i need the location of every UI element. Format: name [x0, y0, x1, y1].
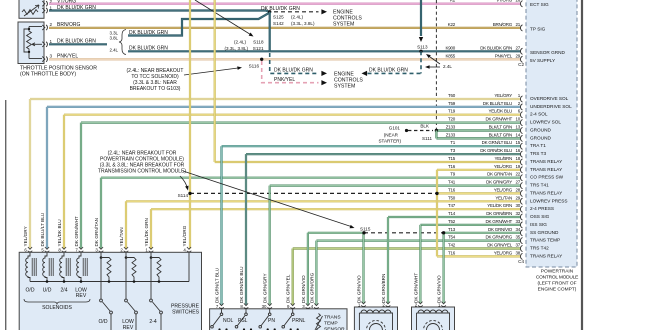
svg-text:YEL/DK BLU: YEL/DK BLU — [488, 109, 512, 114]
svg-text:DK GRN/ORG: DK GRN/ORG — [309, 272, 314, 303]
svg-text:(ON THROTTLE BODY): (ON THROTTLE BODY) — [20, 72, 76, 78]
wire DK GRN/TAN vertical to pin 3 — [100, 178, 102, 249]
svg-text:SOLENOIDS: SOLENOIDS — [42, 305, 72, 311]
svg-text:22: 22 — [515, 172, 520, 177]
svg-text:VT/ORG: VT/ORG — [496, 0, 513, 3]
svg-text:T13: T13 — [448, 227, 456, 232]
svg-text:13: 13 — [515, 125, 520, 130]
wire DK GRN/VIO vertical to input speed sensor pin 1 — [362, 233, 364, 303]
svg-text:T9: T9 — [450, 172, 455, 177]
junction YEL/ORG breakout — [435, 192, 438, 195]
pressure switch 2-4 — [150, 253, 152, 299]
arrow left from 2.4L dashed — [362, 71, 368, 76]
svg-text:T54: T54 — [448, 235, 456, 240]
annotation arrowhead 2.4L a — [425, 53, 431, 59]
svg-text:14: 14 — [515, 132, 520, 137]
svg-text:TP SIG: TP SIG — [530, 26, 546, 31]
svg-text:(LEFT FRONT OF: (LEFT FRONT OF — [538, 281, 577, 287]
dashed wire PNK/YEL to engine controls — [262, 61, 319, 83]
annotation arrowhead 2.4L b — [425, 65, 430, 69]
svg-text:DK BLU/DK GRN: DK BLU/DK GRN — [274, 67, 313, 73]
svg-text:DK GRN/WHT: DK GRN/WHT — [486, 117, 513, 122]
TRS switch PSL — [245, 309, 247, 313]
wire YEL/ORG vertical breakout — [436, 170, 438, 257]
svg-text:LOWREV SOL: LOWREV SOL — [530, 120, 561, 125]
solenoid / pressure switch box — [19, 252, 201, 332]
svg-text:TRS T41: TRS T41 — [530, 183, 549, 188]
svg-text:TRS T3: TRS T3 — [530, 151, 546, 156]
svg-text:2.4L: 2.4L — [109, 47, 118, 52]
TRS pin 3 connector — [306, 303, 310, 305]
ECT thermistor — [22, 10, 38, 15]
svg-text:DK GRN/GRY: DK GRN/GRY — [263, 273, 268, 303]
wire T16 YEL/ORG PCM pin 28 TRANS RELAY — [190, 192, 437, 194]
svg-text:OSS SIG: OSS SIG — [530, 214, 550, 219]
arrow right to engine controls — [321, 71, 327, 76]
svg-text:21: 21 — [515, 22, 520, 27]
svg-text:DK GRN/BRN: DK GRN/BRN — [381, 274, 386, 303]
dashed wire below S113 — [420, 51, 422, 73]
wire Z133 BLK/LT GRN PCM pin 14 GROUND — [436, 137, 521, 139]
svg-text:DK GRN/BRN: DK GRN/BRN — [486, 211, 512, 216]
solenoid common bus — [30, 281, 189, 283]
svg-text:T16: T16 — [448, 164, 456, 169]
svg-text:K900: K900 — [445, 45, 455, 50]
svg-text:26: 26 — [515, 0, 520, 3]
svg-text:YEL/ORG: YEL/ORG — [182, 225, 187, 246]
svg-text:BRN/ORG: BRN/ORG — [493, 22, 513, 27]
svg-text:Z133: Z133 — [446, 132, 456, 137]
arrow to engine controls system — [321, 9, 327, 14]
ECT pin 1 connector — [42, 8, 45, 13]
arrow down to S113 — [419, 37, 423, 42]
svg-text:DK BLU/LT BLU: DK BLU/LT BLU — [483, 101, 512, 106]
trans temp sensor thermistor — [317, 314, 321, 333]
svg-text:YEL/DK GRN: YEL/DK GRN — [487, 203, 512, 208]
input speed sensor box — [354, 307, 397, 333]
svg-text:UNDERDRIVE SOL: UNDERDRIVE SOL — [530, 104, 572, 109]
svg-text:T50: T50 — [448, 195, 456, 200]
svg-text:K2: K2 — [450, 0, 456, 3]
wire DK GRN/VIO vertical to output speed sensor pin 1 — [443, 233, 445, 303]
svg-text:YEL/TAN: YEL/TAN — [495, 195, 512, 200]
svg-text:GROUND: GROUND — [530, 135, 551, 140]
PCM pin 21 TP SIG — [520, 25, 522, 31]
svg-text:T59: T59 — [448, 101, 456, 106]
svg-text:DK BLU/DK GRN: DK BLU/DK GRN — [129, 30, 168, 36]
svg-text:2-4 SOL: 2-4 SOL — [530, 112, 548, 117]
svg-text:T19: T19 — [448, 109, 456, 114]
svg-text:DK GRN/DK BLU: DK GRN/DK BLU — [239, 266, 244, 303]
solenoid box pin 7 connector — [79, 247, 83, 249]
wire Z133 BLK/LT GRN PCM pin 13 GROUND — [436, 129, 521, 131]
svg-text:CONTROL MODULE: CONTROL MODULE — [536, 275, 578, 281]
svg-text:S125: S125 — [273, 15, 284, 20]
wire T42 DK GRN/YEL PCM pin 37 TRS T42 — [293, 247, 521, 249]
svg-text:STARTER): STARTER) — [378, 138, 401, 143]
svg-text:VT/ORG: VT/ORG — [57, 0, 76, 5]
svg-text:PRNL: PRNL — [292, 318, 306, 324]
splice S115 — [362, 231, 365, 234]
wire DK GRN/WHT vertical to output speed sensor pin 2 — [419, 225, 421, 303]
annotation arrowhead S116 — [237, 66, 242, 70]
svg-text:3: 3 — [50, 54, 53, 59]
svg-text:DK GRN/WHT: DK GRN/WHT — [486, 219, 513, 224]
splice S116 — [260, 58, 263, 61]
annotation arrowhead S114 — [185, 186, 190, 191]
wire YEL/GRY vertical to solenoid box pin 6 — [29, 99, 31, 249]
diagram left border — [5, 100, 7, 330]
wire DK GRN/LT BLU vertical to TRS pin 7 — [220, 146, 222, 305]
svg-text:2-4 PRESS: 2-4 PRESS — [530, 206, 554, 211]
wire DK BLU/DK GRN from top to S113 — [420, 0, 422, 36]
svg-text:PN: PN — [268, 318, 275, 324]
wire YEL/DK BLU vertical to pin 8 — [63, 115, 65, 249]
svg-text:YEL/BRN: YEL/BRN — [494, 156, 512, 161]
wire T16 YEL/ORG PCM pin 19 TRANS RELAY — [437, 169, 521, 171]
svg-text:DK GRN/WHT: DK GRN/WHT — [74, 216, 79, 246]
svg-text:DK BLU/DK GRN: DK BLU/DK GRN — [480, 45, 512, 50]
wire K22 BRN/ORG TP signal — [49, 27, 521, 29]
ECT sensor box — [19, 0, 44, 18]
svg-text:29: 29 — [515, 53, 520, 58]
svg-text:BLK: BLK — [420, 124, 430, 129]
svg-text:(3.3L, 3.8L): (3.3L, 3.8L) — [225, 46, 249, 51]
solenoid coil 2/4 — [60, 253, 64, 282]
svg-text:YEL/ORG: YEL/ORG — [494, 250, 513, 255]
svg-text:SYSTEM: SYSTEM — [334, 84, 355, 90]
svg-text:34: 34 — [515, 227, 520, 232]
svg-text:DK GRN/ORG: DK GRN/ORG — [485, 235, 512, 240]
wire T9 DK GRN/TAN PCM pin 22 CO PRESS SW — [101, 177, 521, 179]
svg-text:BLK/LT GRN: BLK/LT GRN — [489, 132, 512, 137]
svg-text:3.3L: 3.3L — [109, 30, 118, 35]
svg-text:BRN/ORG: BRN/ORG — [57, 22, 80, 28]
wire T47 YEL/DK GRN PCM pin 30 2-4 PRESS — [151, 208, 521, 210]
trans relay feed inside box — [188, 253, 190, 282]
wire YEL/TAN vertical to pin 2 — [125, 201, 127, 248]
svg-text:NOL: NOL — [223, 318, 234, 324]
splice S114 — [188, 192, 191, 195]
svg-text:DK BLU/DK GRN: DK BLU/DK GRN — [261, 6, 300, 12]
svg-text:DK BLU/DK GRN: DK BLU/DK GRN — [57, 39, 96, 45]
svg-text:DK GRN/VIO: DK GRN/VIO — [301, 275, 306, 303]
TRS pin 30 connector — [268, 303, 272, 305]
svg-text:TRANS RELAY: TRANS RELAY — [530, 159, 563, 164]
svg-text:16: 16 — [515, 148, 520, 153]
svg-text:TRANS RELAY: TRANS RELAY — [530, 167, 563, 172]
annotation line to S114 — [180, 176, 187, 188]
solenoid box pin 6 connector — [28, 247, 32, 249]
svg-text:(NEAR: (NEAR — [384, 132, 399, 137]
wire T15 YEL/BRN PCM pin 18 TRANS RELAY — [215, 161, 521, 163]
svg-text:DK GRN/WHT: DK GRN/WHT — [413, 273, 418, 303]
svg-text:REV: REV — [123, 325, 134, 330]
TPS pin 1 connector — [42, 42, 45, 47]
svg-text:YEL/ORG: YEL/ORG — [494, 187, 513, 192]
svg-text:S142: S142 — [273, 21, 284, 26]
wire K855 PNK/YEL 5V supply — [49, 58, 521, 60]
PCM pin 26 ECT SIG — [520, 1, 522, 7]
svg-text:TRANS TEMP: TRANS TEMP — [530, 238, 560, 243]
solenoid coil U/D — [43, 253, 47, 282]
wire DK GRN/VIO vertical to TRS pin 3 — [307, 233, 309, 305]
wire T20 DK GRN/WHT PCM pin 10 LOWREV SOL — [81, 121, 521, 123]
svg-text:3.8L: 3.8L — [109, 36, 118, 41]
solenoid box pin 5 connector — [45, 247, 49, 249]
svg-text:T60: T60 — [448, 93, 456, 98]
resistor branch at x 126 — [125, 256, 128, 259]
svg-text:T15: T15 — [448, 156, 456, 161]
junction DK GRN/VIO at output speed sensor branch — [442, 231, 445, 234]
svg-text:G101: G101 — [389, 125, 401, 130]
svg-text:BLK/LT GRN: BLK/LT GRN — [489, 125, 512, 130]
dashed wire to engine controls — [274, 11, 319, 13]
annotation line to S115 — [183, 171, 351, 227]
svg-text:C2: C2 — [518, 62, 524, 67]
splice S113 — [419, 50, 422, 53]
wire Z133 link rows 13-14 — [435, 131, 437, 139]
svg-text:35: 35 — [515, 235, 520, 240]
svg-text:DK BLU/LT BLU: DK BLU/LT BLU — [40, 212, 45, 246]
wire T50 YEL/TAN PCM pin 29 LOWREV PRESS — [126, 200, 521, 202]
annotation line 2.4L b — [428, 66, 440, 68]
wire T19 YEL/DK BLU PCM pin 6 2-4 SOL — [64, 114, 521, 116]
svg-text:1: 1 — [50, 39, 53, 44]
pressure switch LOW — [125, 253, 127, 299]
svg-text:S111: S111 — [422, 136, 432, 141]
wire T3 DK GRN/DK BLU PCM pin 16 TRS T3 — [246, 153, 521, 155]
svg-text:33: 33 — [515, 219, 520, 224]
svg-text:K855: K855 — [445, 53, 455, 58]
throttle position sensor box — [18, 22, 44, 64]
dashed wire DK BLU/DK GRN from S113 — [368, 72, 422, 74]
svg-text:PSL: PSL — [238, 318, 248, 324]
svg-text:TRANS RELAY: TRANS RELAY — [530, 253, 563, 258]
svg-text:5V SUPPLY: 5V SUPPLY — [530, 58, 556, 63]
TRS switch NOL — [221, 309, 223, 313]
svg-text:TRANS RELAY: TRANS RELAY — [530, 190, 563, 195]
svg-text:T47: T47 — [448, 203, 456, 208]
wire vertical splice link — [269, 12, 271, 52]
svg-text:SYSTEM: SYSTEM — [333, 22, 354, 28]
svg-text:15: 15 — [515, 140, 520, 145]
TPS pin 3 connector — [42, 57, 45, 62]
diagram right border — [581, 0, 583, 330]
svg-text:S113: S113 — [417, 44, 428, 49]
solenoids brace — [24, 299, 90, 305]
annotation line 2.4L a — [428, 56, 440, 65]
svg-text:32: 32 — [515, 211, 520, 216]
svg-text:REV: REV — [76, 293, 87, 299]
svg-text:LOWREV PRESS: LOWREV PRESS — [530, 198, 568, 203]
svg-text:U/D: U/D — [43, 288, 52, 294]
wire DK BLU/DK GRN 3.3L 3.8L branch — [128, 13, 270, 36]
svg-text:ECT SIG: ECT SIG — [530, 2, 549, 7]
svg-text:DK GRN/GRY: DK GRN/GRY — [486, 180, 512, 185]
svg-text:DK GRN/YEL: DK GRN/YEL — [286, 274, 291, 303]
svg-text:T1: T1 — [450, 140, 455, 145]
svg-text:DK BLU/DK GRN: DK BLU/DK GRN — [57, 5, 96, 11]
wire YEL/ORG vertical from top through S114 to pin 4 — [189, 0, 191, 249]
svg-text:ENGINE COMPT): ENGINE COMPT) — [538, 287, 577, 293]
svg-text:PNK/YEL: PNK/YEL — [495, 53, 513, 58]
svg-text:YEL/ORG: YEL/ORG — [494, 164, 513, 169]
svg-text:ISS SIG: ISS SIG — [530, 222, 547, 227]
TRS pin 8 connector — [244, 303, 248, 305]
wire DK GRN/ORG vertical to TRS pin 4 — [315, 241, 317, 305]
ECT pin 2 connector — [42, 1, 45, 6]
annotation arrowhead S115 — [350, 225, 355, 230]
TRS pin 4 connector — [314, 303, 318, 305]
output speed sensor tone wheel — [424, 321, 443, 335]
arrow right to engine controls 2 — [321, 80, 327, 85]
svg-text:18: 18 — [515, 156, 520, 161]
svg-text:TRANSMISSION CONTROL MODULE): TRANSMISSION CONTROL MODULE) — [98, 169, 186, 175]
svg-text:TRANS: TRANS — [324, 314, 341, 320]
solenoid box pin 3 connector — [99, 247, 103, 249]
svg-text:(3.3L, 3.8L): (3.3L, 3.8L) — [291, 21, 315, 26]
svg-text:T16: T16 — [448, 250, 456, 255]
svg-text:Z133: Z133 — [446, 125, 456, 130]
dashed wire BLK to G101 — [408, 130, 433, 132]
svg-text:DK BLU/DK GRN: DK BLU/DK GRN — [369, 67, 408, 73]
splice S111 — [435, 129, 438, 132]
svg-text:GROUND: GROUND — [530, 128, 551, 133]
wire DK BLU/DK GRN ECT ground to splice — [49, 11, 270, 12]
svg-text:S121: S121 — [253, 46, 264, 51]
svg-text:S118: S118 — [253, 40, 264, 45]
svg-text:SS GROUND: SS GROUND — [530, 230, 559, 235]
svg-text:YEL/DK GRN: YEL/DK GRN — [144, 218, 149, 246]
annotation line to S118/S121 — [195, 0, 251, 35]
svg-text:DK GRN/TAN: DK GRN/TAN — [487, 172, 512, 177]
svg-text:DK GRN/VIO: DK GRN/VIO — [488, 227, 513, 232]
svg-text:T20: T20 — [448, 117, 456, 122]
svg-text:27: 27 — [515, 45, 520, 50]
svg-text:(2.4L): (2.4L) — [234, 40, 246, 45]
svg-text:POWERTRAIN: POWERTRAIN — [541, 269, 574, 275]
svg-text:T42: T42 — [448, 243, 456, 248]
solenoid box pin 8 connector — [62, 247, 66, 249]
svg-text:YEL/GRY: YEL/GRY — [494, 93, 512, 98]
wire T52 DK GRN/WHT PCM pin 33 ISS SIG — [420, 224, 521, 226]
svg-text:2.4L: 2.4L — [443, 64, 452, 69]
svg-text:19: 19 — [515, 164, 520, 169]
wire DK GRN/YEL vertical to TRS pin 9 — [292, 249, 294, 306]
output speed sensor box — [412, 307, 455, 333]
wire T54 DK GRN/ORG PCM pin 35 TRANS TEMP — [316, 240, 521, 242]
TPS potentiometer — [27, 29, 32, 52]
svg-text:OVERDRIVE SOL: OVERDRIVE SOL — [530, 96, 569, 101]
svg-text:K22: K22 — [448, 22, 456, 27]
svg-text:T16: T16 — [448, 187, 456, 192]
svg-text:2-4: 2-4 — [149, 319, 157, 325]
svg-text:S115: S115 — [360, 226, 371, 231]
svg-text:DK BLU/DK GRN: DK BLU/DK GRN — [129, 46, 168, 52]
svg-text:T41: T41 — [448, 180, 456, 185]
solenoid coil LOW — [77, 253, 81, 282]
wire T13 DK GRN/VIO PCM pin 34 SS GROUND — [308, 232, 364, 234]
svg-text:O/D: O/D — [25, 288, 34, 294]
svg-text:T3: T3 — [450, 148, 455, 153]
dashed wire DK BLU/DK GRN to engine controls — [270, 53, 319, 73]
svg-text:30: 30 — [262, 304, 267, 309]
input speed sensor pickup coil — [359, 313, 392, 335]
wire K900 DK BLU/DK GRN 2.4L branch / sensor ground — [128, 50, 521, 52]
transmission range sensor box — [210, 309, 347, 333]
annotation line to S116 — [184, 68, 238, 75]
solenoid box pin 2 connector — [124, 247, 128, 249]
TRS switch PRNL — [292, 309, 294, 313]
svg-text:DK GRN/VIO: DK GRN/VIO — [357, 275, 362, 303]
resistor branch at x 101 — [100, 256, 103, 259]
svg-text:DK GRN/LT BLU: DK GRN/LT BLU — [482, 140, 512, 145]
svg-text:DK GRN/YEL: DK GRN/YEL — [487, 243, 513, 248]
wire DK GRN/BRN vertical to input speed sensor pin 2 — [387, 217, 389, 303]
PCM pin 29 5V SUPPLY — [520, 56, 522, 62]
svg-text:SENSOR GRND: SENSOR GRND — [530, 50, 566, 55]
powertrain control module connector box — [526, 0, 577, 267]
wire YEL/DK GRN vertical to pin 1 — [150, 209, 152, 248]
svg-text:YEL/GRY: YEL/GRY — [23, 225, 28, 246]
svg-text:27: 27 — [515, 180, 520, 185]
svg-text:S114: S114 — [178, 193, 189, 198]
svg-text:T52: T52 — [448, 219, 456, 224]
svg-text:(2.4L): (2.4L) — [291, 15, 303, 20]
svg-text:C4: C4 — [518, 259, 524, 264]
dashed breakout wire x436 — [435, 0, 437, 131]
splice S125/S142 — [268, 10, 271, 13]
svg-text:SWITCHES: SWITCHES — [172, 309, 199, 315]
svg-text:DK GRN/DK BLU: DK GRN/DK BLU — [480, 148, 512, 153]
svg-text:28: 28 — [515, 187, 520, 192]
wire DK BLU/LT BLU vertical to pin 5 — [46, 107, 48, 249]
svg-text:30: 30 — [515, 203, 520, 208]
svg-text:37: 37 — [515, 243, 520, 248]
wire T14 DK GRN/BRN PCM pin 32 OSS SIG — [388, 216, 521, 218]
annotation arrowhead S118/S121 — [249, 33, 255, 38]
svg-text:BREAKOUT TO G103): BREAKOUT TO G103) — [130, 86, 181, 92]
wire T59 DK BLU/LT BLU PCM pin 2 UNDERDRIVE SOL — [47, 106, 521, 108]
svg-text:38: 38 — [515, 250, 520, 255]
wire T41 DK GRN/GRY PCM pin 27 TRS T41 — [270, 185, 521, 187]
PCM pin 27 SENSOR GRND — [520, 48, 522, 54]
TRS pin 7 connector — [219, 303, 223, 305]
svg-text:YEL/TAN: YEL/TAN — [119, 227, 124, 246]
wire YEL/BRN vertical from top to row 18 — [214, 0, 216, 162]
svg-text:2/4: 2/4 — [60, 288, 67, 294]
pressure switch O/D — [100, 253, 102, 299]
wire DK GRN/GRY vertical to TRS pin 30 — [269, 186, 271, 305]
svg-text:10: 10 — [515, 117, 520, 122]
svg-text:PNK/YEL: PNK/YEL — [274, 77, 295, 83]
input speed sensor tone wheel — [366, 321, 385, 335]
TRS pin 9 connector — [291, 303, 295, 305]
TPS pin 2 connector — [42, 25, 45, 30]
svg-text:S116: S116 — [249, 63, 260, 68]
wire DK GRN/DK BLU vertical to TRS pin 8 — [245, 154, 247, 305]
solenoid box pin 1 connector — [149, 247, 153, 249]
output speed sensor pickup coil — [417, 313, 450, 335]
TRS switch PN — [269, 309, 271, 313]
wire DK GRN/WHT vertical to pin 7 — [80, 123, 82, 249]
wire DK BLU/DK GRN TPS pin 1 — [49, 43, 107, 45]
wire K2 VT/ORG ECT signal — [49, 3, 521, 5]
svg-text:29: 29 — [515, 195, 520, 200]
svg-text:O/D: O/D — [98, 319, 107, 325]
svg-text:TEMP: TEMP — [324, 320, 338, 326]
